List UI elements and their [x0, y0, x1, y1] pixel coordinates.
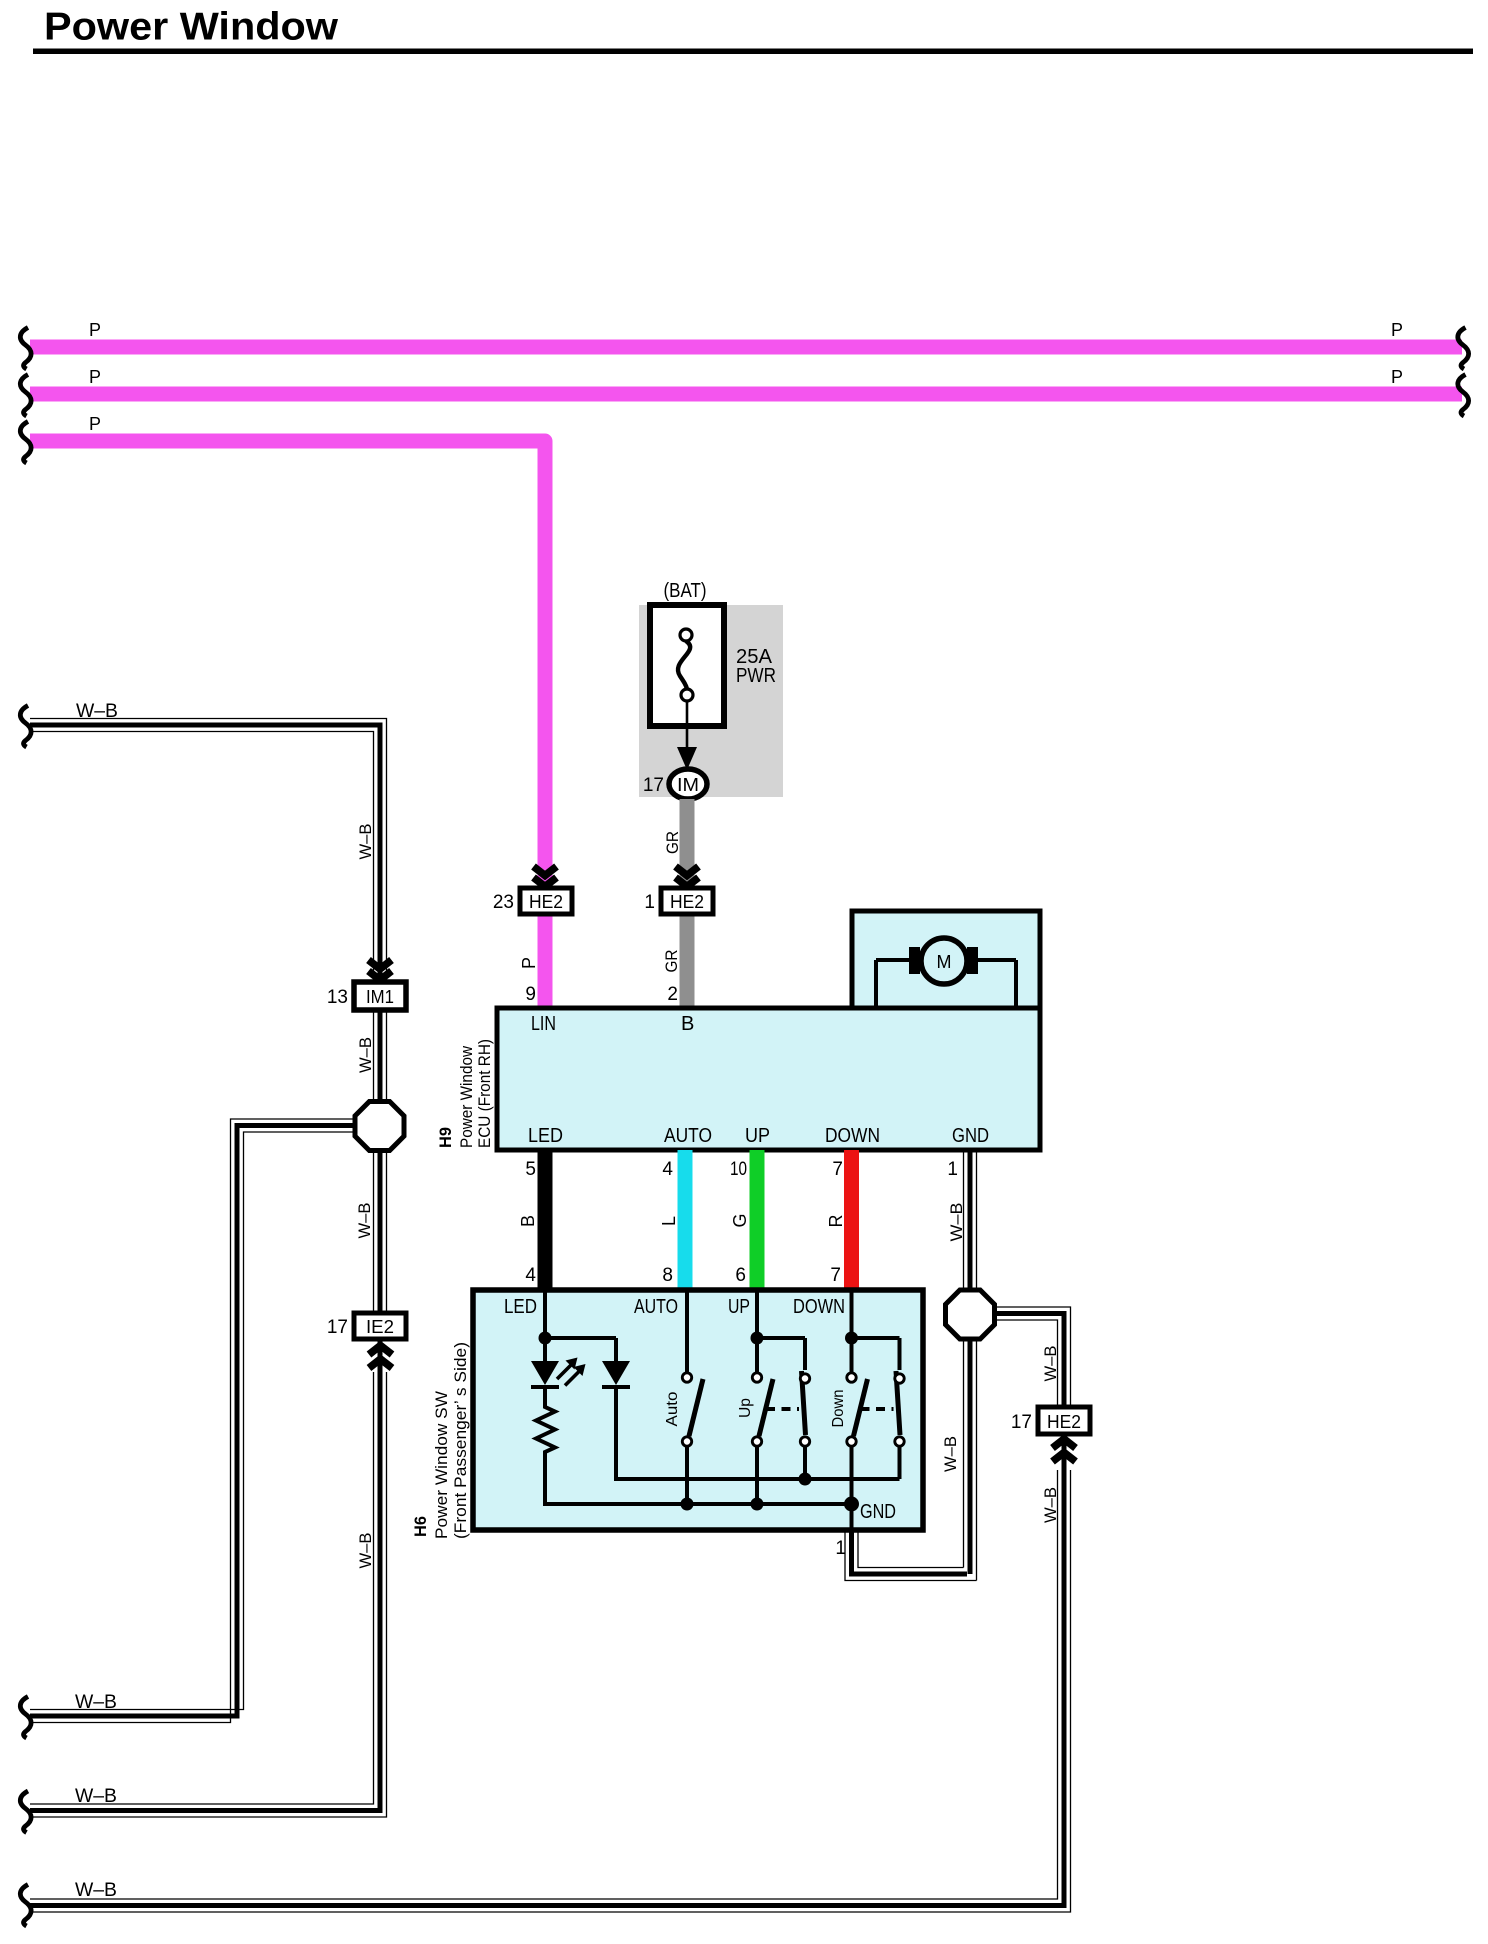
svg-text:P: P — [1391, 367, 1403, 387]
wire L cyan ECU pin4 to SW pin8 — [678, 1150, 693, 1290]
break squiggle W-B bottom 1 — [20, 1697, 31, 1739]
arrow chevrons into 13 IM1 — [369, 960, 392, 969]
DOWN switch blade (left, open) — [854, 1379, 868, 1436]
wire GR from connector HE2 to ECU pin 2 — [680, 916, 695, 1008]
LED D1 (indicator) — [531, 1361, 559, 1385]
svg-text:DOWN: DOWN — [825, 1125, 880, 1147]
node dot mid bus — [799, 1473, 812, 1486]
ground junction octagon J1 — [355, 1102, 404, 1151]
fuse terminal circle top — [680, 629, 692, 641]
svg-text:IE2: IE2 — [366, 1317, 394, 1337]
svg-text:4: 4 — [662, 1159, 673, 1180]
connector 13 IM1 — [354, 982, 406, 1010]
svg-text:H9: H9 — [436, 1127, 455, 1148]
ground junction octagon J2 — [946, 1290, 995, 1339]
fuse 25A PWR body — [650, 605, 724, 726]
break squiggle left P1 — [20, 328, 31, 370]
arrow chevrons into 1 HE2 — [676, 867, 699, 876]
UP mechanical link (dashed) — [766, 1407, 799, 1411]
resistor R (zigzag) — [536, 1389, 555, 1457]
arrow chevrons (up) below right HE2 — [1053, 1439, 1076, 1448]
svg-text:(Front Passenger’ s Side): (Front Passenger’ s Side) — [451, 1342, 470, 1539]
svg-text:Down: Down — [830, 1390, 847, 1428]
break squiggle right P2 — [1458, 375, 1469, 417]
AUTO contact circles — [682, 1373, 691, 1382]
motor brush left — [909, 947, 920, 974]
wire resistor to bottom bus — [545, 1457, 852, 1504]
break squiggle left P3 — [20, 422, 31, 464]
AUTO switch blade — [689, 1379, 703, 1436]
UP switch blade (left, open) — [759, 1379, 773, 1436]
LED branch wire from pin 4 — [543, 1290, 547, 1361]
UP switch wire and node — [755, 1290, 759, 1372]
wire W-B octagon J2 down to GND return corner — [968, 1336, 973, 1574]
wire P bus 2 (horizontal) — [30, 387, 1462, 402]
svg-text:HE2: HE2 — [1047, 1412, 1081, 1432]
UP link to second contact — [757, 1338, 805, 1370]
break squiggle W-B bottom 2 — [20, 1791, 31, 1833]
svg-text:AUTO: AUTO — [664, 1125, 712, 1147]
svg-text:Power Window: Power Window — [44, 6, 339, 49]
break squiggle W-B top-left — [20, 706, 31, 748]
wire R red ECU pin7 to SW pin7 — [844, 1150, 859, 1290]
connector 1 HE2 — [661, 888, 713, 914]
node dot LED branch — [539, 1332, 552, 1345]
switch H6 box: Power Window SW (Front Passenger's Side) — [473, 1290, 923, 1530]
node dot GND junction — [844, 1497, 859, 1512]
svg-text:P: P — [1391, 320, 1403, 340]
svg-text:1: 1 — [835, 1538, 846, 1559]
svg-text:1: 1 — [947, 1159, 958, 1180]
wire W-B branch from octagon J1 left and down to bottom squiggle — [30, 1126, 357, 1717]
wire W-B ECU pin1 down to octagon J2 — [968, 1150, 973, 1292]
svg-text:B: B — [681, 1013, 694, 1035]
svg-text:1: 1 — [644, 892, 655, 913]
svg-text:P: P — [519, 957, 539, 969]
connector 23 HE2 — [520, 888, 572, 914]
svg-text:W–B: W–B — [356, 1037, 375, 1073]
svg-text:M: M — [937, 952, 952, 972]
node dot bottom bus AUTO — [681, 1498, 694, 1511]
svg-text:(BAT): (BAT) — [664, 580, 707, 602]
svg-text:W–B: W–B — [356, 1533, 375, 1569]
svg-text:17: 17 — [1011, 1412, 1032, 1433]
break squiggle W-B bottom 3 — [20, 1885, 31, 1927]
svg-text:W–B: W–B — [75, 1786, 117, 1807]
svg-text:W–B: W–B — [947, 1203, 966, 1242]
node dot bottom bus UP — [751, 1498, 764, 1511]
wire G green ECU pin10 to SW pin6 — [750, 1150, 765, 1290]
svg-text:HE2: HE2 — [670, 892, 704, 912]
svg-text:GND: GND — [860, 1501, 896, 1523]
svg-text:Power Window SW: Power Window SW — [432, 1391, 451, 1539]
svg-text:W–B: W–B — [1041, 1346, 1060, 1382]
ECU H9 box: Power Window ECU (Front RH) — [497, 1008, 1040, 1150]
wire W-B from SW GND pin down and right to J2 (thick core) — [852, 1530, 968, 1574]
svg-text:P: P — [89, 367, 101, 387]
wire P bus 3 turning down to node 23 HE2 — [30, 441, 545, 884]
svg-text:P: P — [89, 320, 101, 340]
svg-text:10: 10 — [730, 1159, 747, 1180]
DOWN left contact to GND node — [850, 1447, 854, 1531]
svg-text:7: 7 — [832, 1159, 843, 1180]
svg-text:4: 4 — [525, 1265, 536, 1286]
LED D1 emission arrows — [557, 1365, 571, 1379]
arrow chevrons (up) below IE2 — [369, 1346, 392, 1355]
wire B black ECU pin5 to SW pin4 — [538, 1150, 553, 1290]
motor M circle — [921, 938, 967, 984]
svg-text:B: B — [518, 1215, 538, 1227]
svg-text:W–B: W–B — [356, 824, 375, 860]
wire W-B octagon J1 to IE2: thick core — [378, 1148, 383, 1313]
svg-text:HE2: HE2 — [529, 892, 563, 912]
DOWN mechanical link (dashed) — [861, 1407, 894, 1411]
DOWN right contact to mid bus corner — [898, 1447, 902, 1480]
svg-text:2: 2 — [667, 984, 678, 1005]
svg-text:17: 17 — [643, 775, 664, 796]
svg-text:LED: LED — [528, 1125, 563, 1147]
svg-text:GND: GND — [952, 1125, 989, 1147]
AUTO switch wire — [685, 1290, 689, 1372]
svg-text:AUTO: AUTO — [634, 1296, 678, 1318]
svg-text:GR: GR — [663, 831, 682, 854]
svg-text:9: 9 — [525, 984, 536, 1005]
DOWN switch wire and node — [850, 1290, 854, 1372]
LED D2 — [602, 1361, 630, 1385]
svg-text:W–B: W–B — [941, 1436, 960, 1472]
connector 17 HE2 (right) — [1038, 1407, 1090, 1434]
svg-text:W–B: W–B — [1041, 1487, 1060, 1523]
svg-text:ECU (Front RH): ECU (Front RH) — [475, 1039, 494, 1148]
UP left contact to bottom bus — [755, 1447, 759, 1505]
DOWN right blade (closed) — [896, 1371, 900, 1435]
svg-text:LED: LED — [504, 1296, 537, 1318]
svg-text:L: L — [659, 1216, 679, 1226]
arrowhead into IM — [677, 747, 697, 770]
break squiggle right P1 — [1458, 328, 1469, 370]
svg-text:Power Window: Power Window — [457, 1045, 476, 1148]
motor brush right — [967, 947, 978, 974]
wire GR from IM to connector 1 HE2 — [680, 799, 695, 884]
wire P bus 1 (horizontal) — [30, 340, 1462, 355]
svg-text:PWR: PWR — [736, 665, 776, 687]
UP contact circles — [752, 1373, 761, 1382]
wire W-B octagon J2 right and down to 17 HE2 — [994, 1314, 1064, 1408]
svg-text:UP: UP — [745, 1125, 770, 1147]
wire D2 to mid bus — [616, 1387, 900, 1479]
svg-text:H6: H6 — [411, 1516, 430, 1537]
wire W-B IM1 to octagon J1 — [378, 1010, 383, 1104]
UP right blade (closed) — [802, 1371, 806, 1435]
svg-text:DOWN: DOWN — [793, 1296, 845, 1318]
junction-block shading (gray box) — [639, 605, 783, 797]
svg-text:13: 13 — [327, 987, 348, 1008]
connector 17 IM (oval) — [669, 769, 707, 799]
svg-text:W–B: W–B — [75, 1692, 117, 1713]
svg-text:W–B: W–B — [76, 701, 118, 722]
svg-text:17: 17 — [327, 1317, 348, 1338]
svg-text:IM1: IM1 — [366, 987, 394, 1007]
svg-text:7: 7 — [830, 1265, 841, 1286]
break squiggle left P2 — [20, 375, 31, 417]
svg-text:R: R — [826, 1215, 846, 1228]
DOWN link to second contact — [852, 1338, 900, 1370]
svg-text:P: P — [89, 414, 101, 434]
svg-text:G: G — [730, 1213, 750, 1227]
svg-text:W–B: W–B — [355, 1203, 374, 1239]
fuse terminal circle bottom — [681, 689, 693, 701]
wire W-B below right HE2 down to bottom bus — [30, 1434, 1064, 1906]
connector 17 IE2 — [354, 1313, 406, 1339]
wire W-B top-left: thin flank lines — [30, 732, 374, 983]
wire LED branch to second LED — [545, 1338, 616, 1361]
svg-text:Auto: Auto — [664, 1391, 681, 1426]
motor wire right — [978, 960, 1016, 1008]
UP right contact to mid bus — [803, 1447, 807, 1480]
svg-text:UP: UP — [728, 1296, 750, 1318]
title rule — [33, 49, 1473, 55]
wire W-B IE2 down to bottom squiggle 2 — [30, 1339, 380, 1811]
power window motor housing box — [852, 911, 1040, 1008]
AUTO to bottom bus — [685, 1447, 689, 1505]
svg-text:Up: Up — [737, 1398, 754, 1418]
svg-text:8: 8 — [662, 1265, 673, 1286]
motor wire left — [876, 960, 911, 1008]
wire W-B ground (top-left) to IM1: thick core — [30, 725, 380, 982]
svg-text:23: 23 — [493, 892, 514, 913]
DOWN contact circles — [847, 1373, 856, 1382]
svg-text:LIN: LIN — [531, 1013, 556, 1035]
arrow chevrons into 23 HE2 — [534, 867, 557, 876]
svg-text:IM: IM — [677, 775, 699, 795]
svg-text:6: 6 — [735, 1265, 746, 1286]
svg-text:5: 5 — [525, 1159, 536, 1180]
fuse element (S curve) — [678, 641, 690, 689]
wire P segment below connector HE2 into ECU pin 9 — [538, 916, 553, 1008]
wire fuse to connector IM — [686, 701, 689, 750]
svg-text:W–B: W–B — [75, 1880, 117, 1901]
svg-text:GR: GR — [662, 950, 681, 973]
